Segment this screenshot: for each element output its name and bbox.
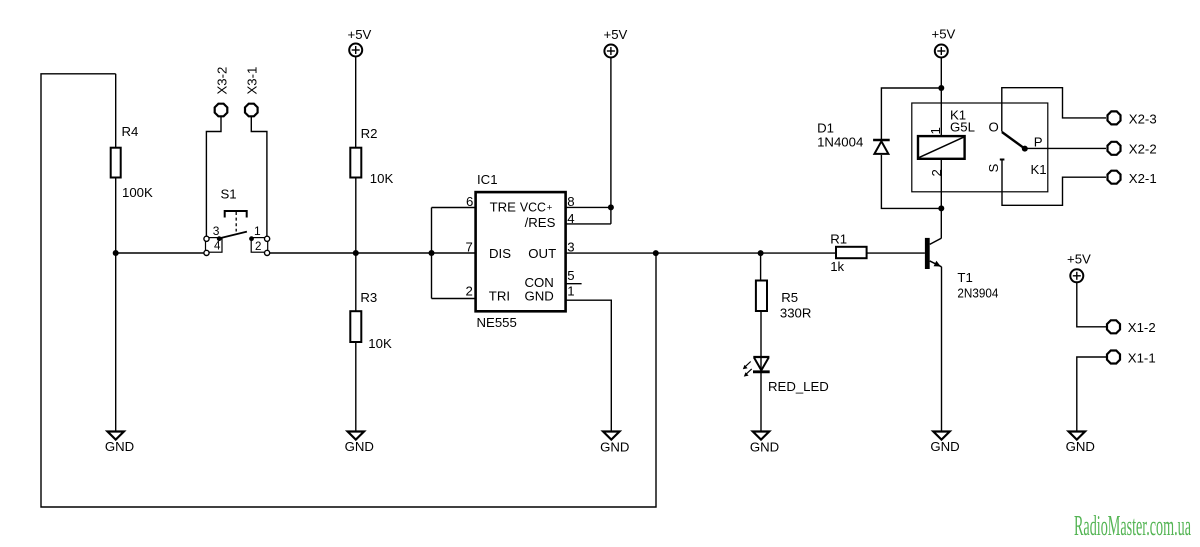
- svg-text:TRE: TRE: [490, 200, 517, 215]
- svg-text:+5V: +5V: [1067, 252, 1091, 267]
- svg-text:VCC: VCC: [520, 200, 546, 215]
- svg-text:+: +: [547, 203, 553, 214]
- svg-text:R4: R4: [122, 124, 139, 139]
- S1 right contact box: [251, 238, 268, 253]
- S1 lever: [219, 232, 247, 239]
- svg-text:6: 6: [466, 194, 473, 209]
- connector X1-2: [1107, 320, 1120, 333]
- wire +5V down to pin8/pin4: [610, 58, 612, 224]
- svg-text:1N4004: 1N4004: [817, 135, 863, 150]
- svg-text:S1: S1: [221, 187, 237, 202]
- svg-text:GND: GND: [930, 439, 959, 454]
- svg-text:2: 2: [466, 284, 473, 299]
- S1 left contact box: [206, 238, 223, 253]
- svg-text:GND: GND: [345, 439, 374, 454]
- wire outer feedback loop left/bottom: [41, 74, 656, 507]
- wire +5V to T1 collector: [940, 58, 942, 239]
- wire +5V to X1-2: [1077, 282, 1106, 327]
- svg-text:5: 5: [567, 268, 574, 283]
- ground GND (IC1): [603, 432, 619, 440]
- resistor R4: [111, 148, 121, 178]
- node OUT feedback: [653, 250, 659, 256]
- diode D1 1N4004: [881, 88, 941, 139]
- svg-text:RadioMaster.com.ua: RadioMaster.com.ua: [1074, 510, 1191, 542]
- connector X1-1: [1107, 351, 1120, 364]
- wire IC1 pins 6-2 link: [431, 208, 433, 299]
- contact lever: [1002, 132, 1024, 148]
- connector X3-2: [215, 104, 228, 117]
- wire X3-2 to S1 pin3: [206, 117, 221, 236]
- LED RED_LED: [753, 356, 769, 358]
- svg-text:X2-2: X2-2: [1129, 142, 1157, 157]
- svg-text:TRI: TRI: [489, 289, 510, 304]
- wire pin2 stub: [432, 298, 476, 300]
- connector X3-1: [245, 104, 258, 117]
- svg-text:3: 3: [213, 224, 220, 238]
- relay K1 coil: [918, 136, 965, 159]
- ground GND (R4): [108, 432, 124, 440]
- svg-text:7: 7: [466, 239, 473, 254]
- svg-text:P: P: [1034, 135, 1043, 150]
- svg-text:O: O: [989, 120, 999, 135]
- node D1 bottom: [938, 205, 944, 211]
- svg-text:1: 1: [254, 224, 261, 238]
- wire X3-1 to S1 pin1: [251, 117, 267, 236]
- svg-text:T1: T1: [957, 270, 972, 285]
- svg-text:+5V: +5V: [348, 27, 372, 42]
- wire node to R3: [355, 253, 357, 311]
- wire S1 to IC1 pin7: [270, 252, 476, 254]
- op-amp IC1 NE555 body: [476, 192, 566, 311]
- S contact cap: [1000, 159, 1005, 161]
- svg-text:R2: R2: [361, 126, 378, 141]
- ground GND (X1): [1069, 432, 1085, 440]
- wire pin4 stub: [566, 223, 611, 225]
- svg-text:R3: R3: [360, 290, 377, 305]
- svg-text:X1-1: X1-1: [1128, 351, 1156, 366]
- wire R5 through LED to GND: [760, 311, 762, 432]
- svg-text:R1: R1: [830, 232, 847, 247]
- wire R3 to GND: [355, 342, 357, 432]
- transistor T1 2N3904: [925, 238, 930, 269]
- supply +5V (IC1): [604, 45, 617, 58]
- node R5 junction: [758, 250, 764, 256]
- connector X2-1: [1108, 171, 1121, 184]
- node R2/R3: [353, 250, 359, 256]
- node pin7 junction: [429, 250, 435, 256]
- wire pin6 stub: [432, 207, 476, 209]
- svg-text:R5: R5: [781, 290, 798, 305]
- svg-text:2: 2: [929, 169, 944, 176]
- svg-text:10K: 10K: [370, 171, 394, 186]
- svg-text:GND: GND: [750, 440, 779, 455]
- svg-text:X1-2: X1-2: [1128, 320, 1156, 335]
- wire pin5 stub: [566, 283, 582, 285]
- svg-text:X3-2: X3-2: [214, 67, 229, 95]
- ground GND (LED): [753, 432, 769, 440]
- svg-text:1: 1: [567, 284, 574, 299]
- svg-text:DIS: DIS: [489, 246, 511, 261]
- svg-text:G5L: G5L: [950, 120, 975, 135]
- ground GND (T1): [933, 432, 949, 440]
- svg-text:X2-1: X2-1: [1129, 171, 1157, 186]
- connector X2-2: [1108, 142, 1121, 155]
- svg-text:+5V: +5V: [932, 27, 956, 42]
- svg-text:2: 2: [255, 241, 261, 253]
- svg-text:X2-3: X2-3: [1129, 112, 1157, 127]
- wire R4 top: [115, 74, 117, 148]
- node pin8: [608, 204, 614, 210]
- svg-text:+5V: +5V: [604, 27, 628, 42]
- svg-text:10K: 10K: [368, 336, 392, 351]
- svg-text:1: 1: [928, 127, 943, 134]
- svg-text:330R: 330R: [780, 306, 812, 321]
- svg-text:IC1: IC1: [477, 172, 498, 187]
- svg-text:/RES: /RES: [525, 215, 556, 230]
- svg-text:NE555: NE555: [477, 315, 517, 330]
- svg-text:GND: GND: [105, 439, 134, 454]
- svg-text:GND: GND: [600, 440, 629, 455]
- wire node to R5: [760, 253, 762, 280]
- S1 actuator bracket: [225, 211, 247, 218]
- wire pin8 stub: [566, 206, 611, 208]
- node R4/S1 junction: [113, 250, 119, 256]
- relay K1 contact frame top: [1002, 88, 1106, 132]
- LED arrows: [745, 362, 751, 367]
- wire X1-1 to GND: [1077, 357, 1106, 432]
- wire R1 to T1 base: [867, 252, 925, 254]
- wire R4 bottom to GND: [115, 178, 117, 432]
- svg-text:GND: GND: [1066, 439, 1095, 454]
- S1 actuator dashed link: [235, 212, 237, 232]
- wire R4 node to S1: [116, 252, 204, 254]
- svg-text:D1: D1: [817, 121, 834, 136]
- supply +5V (relay): [935, 45, 948, 58]
- resistor R5: [756, 281, 767, 312]
- resistor R1: [836, 247, 867, 258]
- svg-text:OUT: OUT: [528, 246, 556, 261]
- resistor R3: [350, 311, 361, 342]
- svg-text:K1: K1: [1031, 162, 1047, 177]
- supply +5V (R2): [349, 44, 362, 57]
- pole wire to X2-2: [1025, 147, 1106, 149]
- svg-text:S: S: [986, 164, 1001, 173]
- svg-text:GND: GND: [525, 289, 554, 304]
- relay K1 contact frame bottom: [1002, 160, 1106, 206]
- wire pin1 GND: [566, 300, 612, 431]
- wire +5V to R2: [355, 57, 357, 148]
- wire T1 emitter to GND: [941, 267, 943, 432]
- resistor R2: [350, 148, 361, 178]
- wire R2 to node: [355, 178, 357, 254]
- S1 pin circles: [204, 236, 209, 241]
- supply +5V (X1): [1070, 269, 1083, 282]
- svg-text:2N3904: 2N3904: [957, 286, 998, 301]
- svg-text:1k: 1k: [830, 259, 844, 274]
- ground GND (R3): [348, 432, 364, 440]
- wire pin3 OUT to R1: [566, 252, 836, 254]
- svg-text:RED_LED: RED_LED: [768, 379, 829, 394]
- svg-text:3: 3: [567, 239, 574, 254]
- node D1 top: [938, 85, 944, 91]
- svg-text:4: 4: [214, 241, 221, 253]
- svg-text:100K: 100K: [122, 185, 153, 200]
- connector X2-3: [1108, 111, 1121, 124]
- relay K1 coil frame: [912, 103, 1048, 192]
- svg-text:X3-1: X3-1: [245, 67, 260, 95]
